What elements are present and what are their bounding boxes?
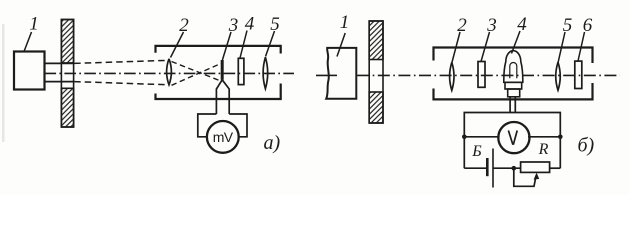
- enclosure box (right): [434, 48, 593, 100]
- voltmeter circuit top wire: [464, 113, 560, 169]
- svg-text:5: 5: [270, 14, 280, 35]
- leader 6 (right): [578, 32, 585, 61]
- leader 3 (left): [222, 32, 231, 60]
- svg-text:3: 3: [228, 15, 239, 36]
- wiper wire: [514, 168, 536, 186]
- leader 1 (left): [24, 32, 32, 52]
- leader 3 (right): [481, 32, 490, 62]
- lamp leads: [510, 97, 515, 113]
- enclosure box (left): [156, 46, 281, 99]
- leader 2 (right): [452, 32, 460, 63]
- optical axis (right): [316, 74, 620, 76]
- battery long plate: [492, 149, 494, 188]
- svg-text:Б: Б: [471, 143, 482, 160]
- battery short plate: [486, 158, 489, 176]
- voltmeter V: [498, 122, 529, 153]
- bottom wire left: [464, 167, 487, 169]
- element 6 (right) diaphragm: [575, 61, 582, 88]
- optical axis (left): [45, 72, 295, 74]
- svg-text:4: 4: [517, 14, 527, 35]
- svg-text:б): б): [578, 135, 595, 157]
- lens 5 (left): [263, 57, 268, 89]
- lens 2 (left): [167, 59, 172, 85]
- wire battery to rheostat: [493, 167, 521, 169]
- leader 4 (right): [512, 31, 521, 54]
- leader 5 (right): [558, 32, 565, 63]
- svg-text:2: 2: [457, 15, 467, 36]
- dashed beam upper: [74, 60, 169, 63]
- svg-text:mV: mV: [213, 129, 234, 145]
- wall (right): [369, 21, 383, 123]
- lens 5 (right): [556, 62, 561, 90]
- tube top wire: [45, 62, 75, 64]
- element 4 (left) diaphragm: [238, 58, 244, 84]
- lamp base lower: [508, 89, 520, 97]
- mV meter wiring: [198, 114, 247, 137]
- voltmeter wire left: [464, 136, 499, 138]
- lens 2 (right): [450, 62, 454, 90]
- leader 2 (left): [171, 32, 184, 58]
- dashed beam lower: [74, 82, 169, 85]
- axis stub inside block 1: [329, 74, 338, 76]
- wiper arrowhead: [534, 173, 540, 180]
- svg-text:R: R: [538, 141, 549, 158]
- svg-text:1: 1: [29, 14, 39, 35]
- converging dashed ray 1: [172, 62, 223, 82]
- tube bottom wire: [45, 81, 75, 83]
- leader 5 (left): [266, 31, 275, 57]
- lamp 4 bulb: [504, 51, 523, 83]
- svg-text:3: 3: [486, 15, 497, 36]
- lamp base upper: [505, 82, 522, 89]
- wire rheostat to right: [550, 167, 561, 169]
- wall (left): [61, 20, 73, 128]
- svg-text:а): а): [264, 132, 281, 154]
- voltmeter wire right: [528, 136, 560, 138]
- lamp filament: [510, 63, 517, 79]
- junction dot right: [558, 135, 563, 140]
- millivoltmeter mV: [207, 121, 239, 153]
- rheostat R body: [521, 162, 550, 172]
- source block 1 (broken left edge): [326, 48, 356, 99]
- thermocouple legs: [216, 80, 229, 114]
- leader 4 (left): [240, 31, 247, 59]
- leader 1 (right): [337, 33, 345, 57]
- source box 1: [14, 52, 45, 90]
- plate 3 (thermocouple target): [221, 60, 224, 80]
- svg-text:2: 2: [179, 15, 189, 36]
- junction dot left: [462, 135, 467, 140]
- junction dot wiper: [512, 166, 517, 171]
- element 3 (right) diaphragm: [478, 62, 485, 88]
- converging dashed ray 2: [172, 63, 223, 85]
- svg-text:1: 1: [340, 12, 350, 33]
